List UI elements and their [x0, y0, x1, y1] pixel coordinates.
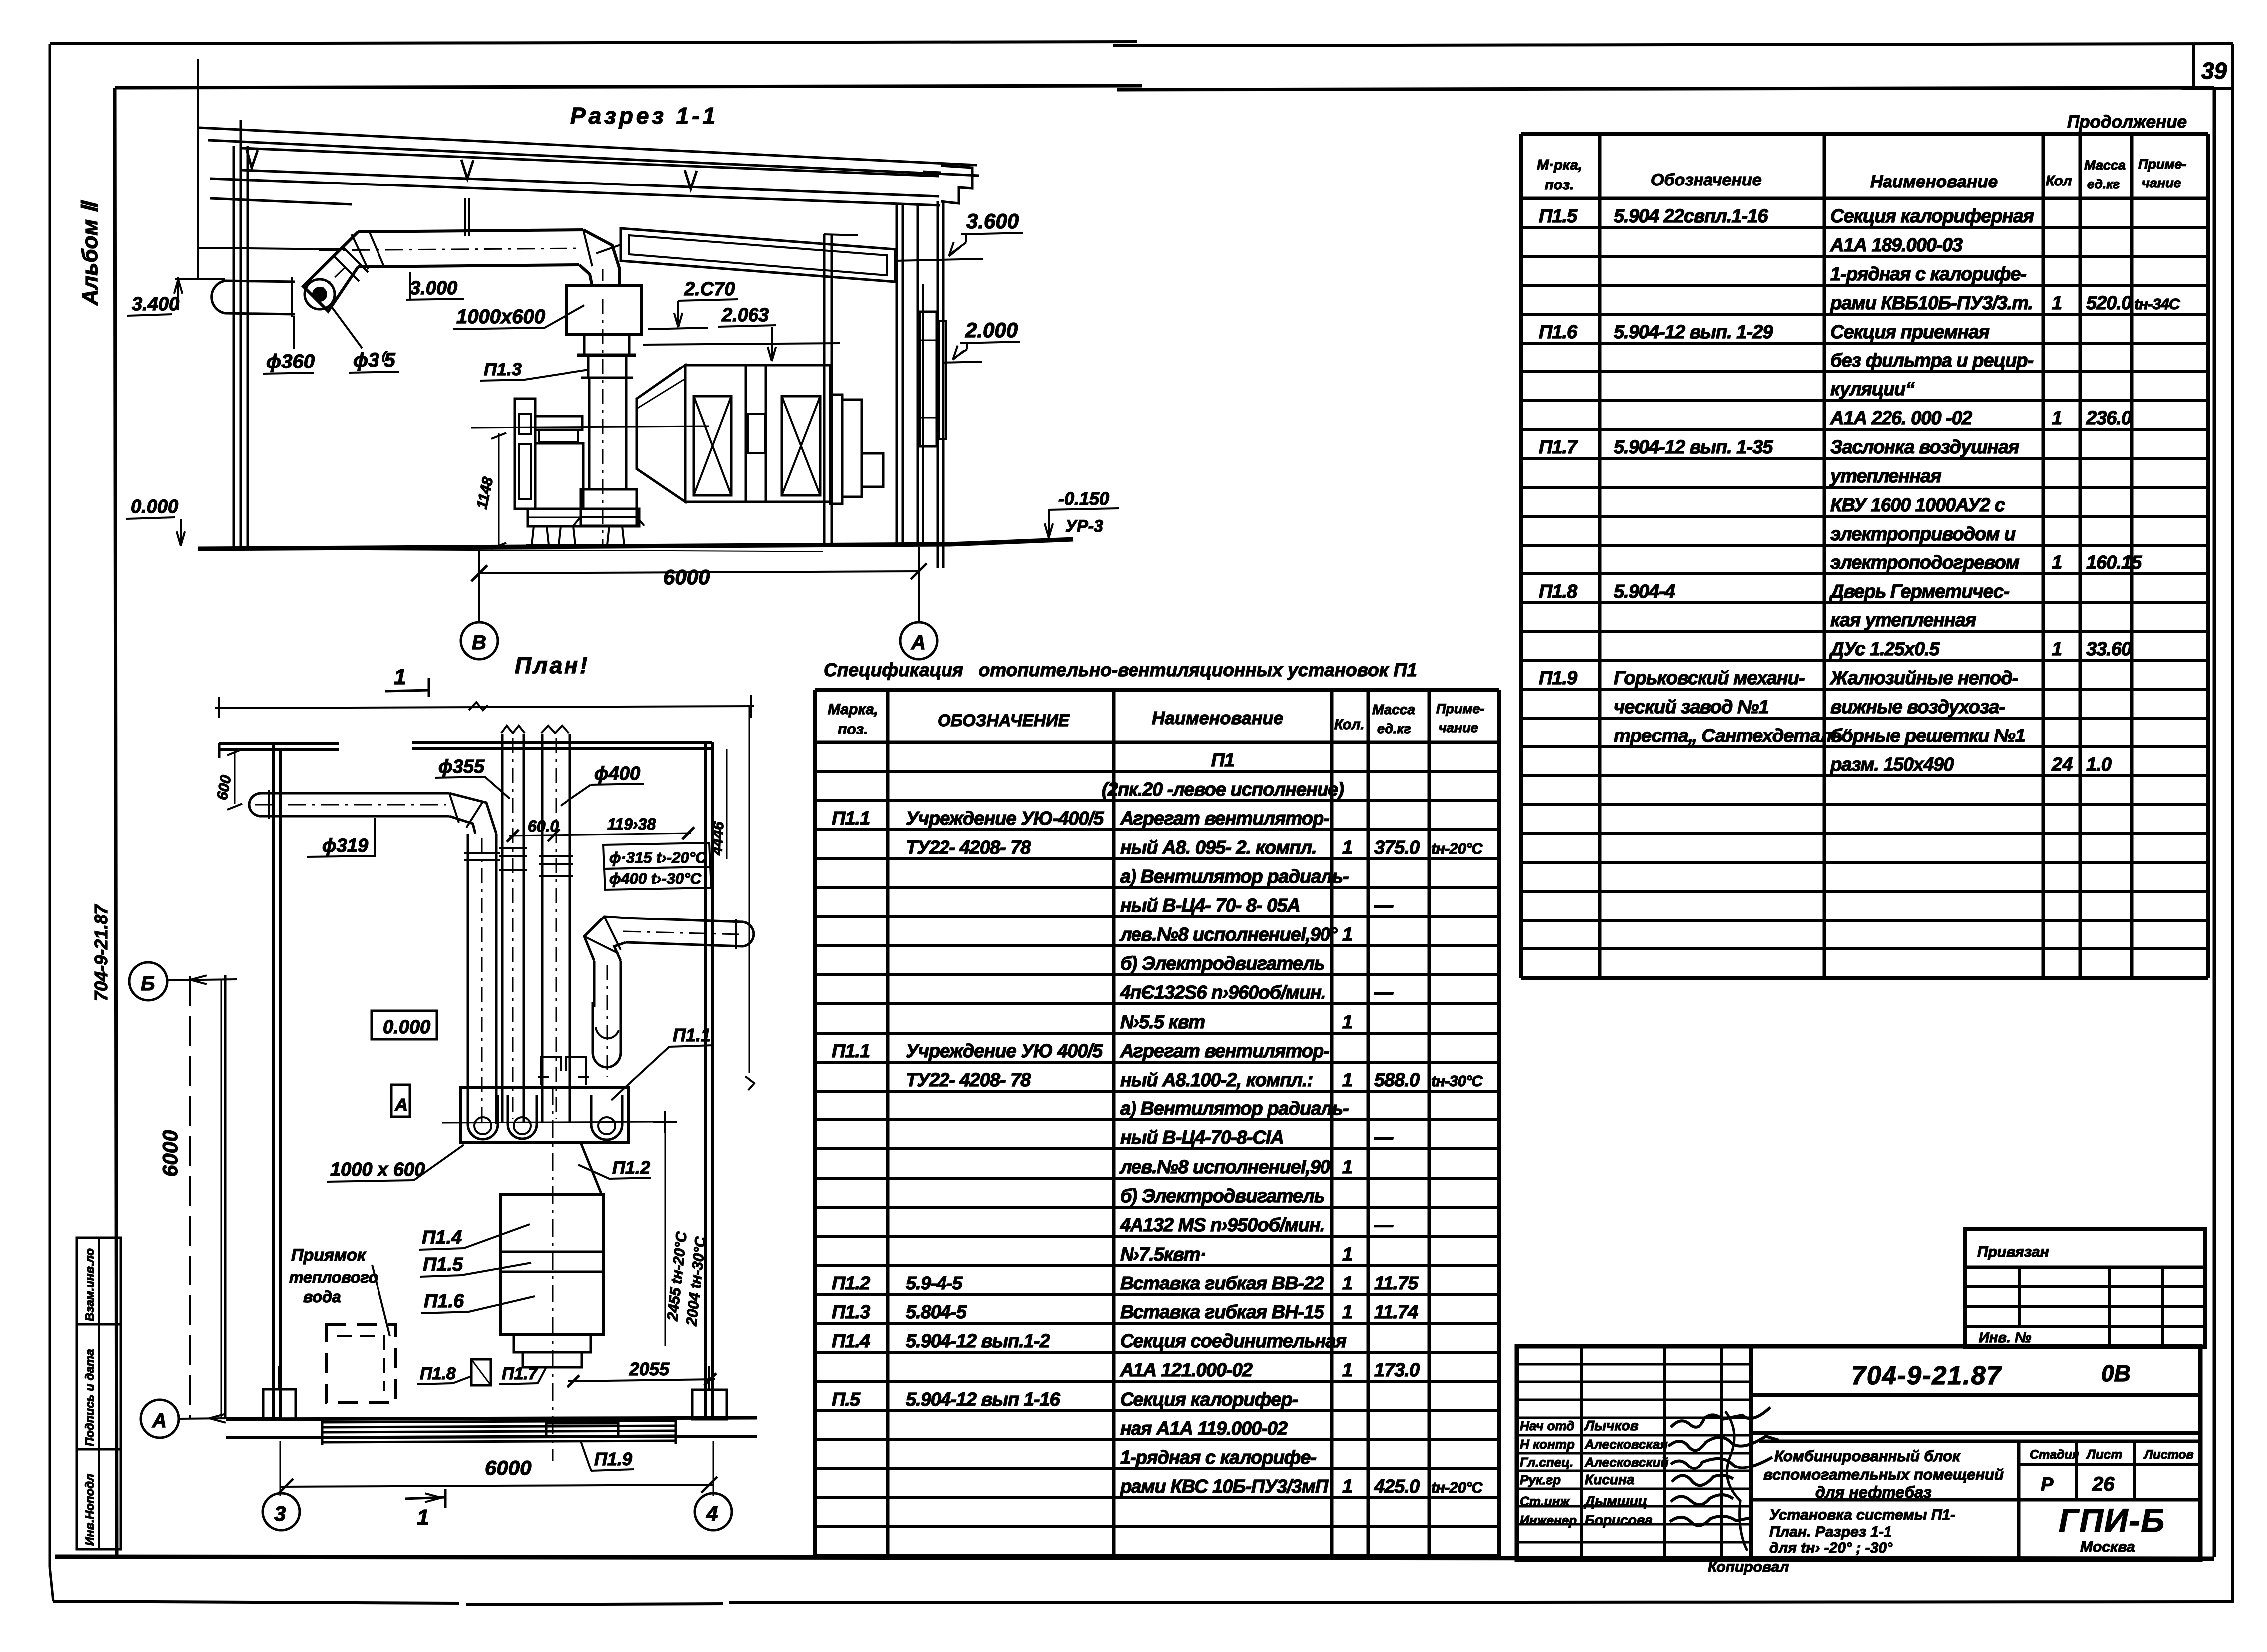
svg-text:3: 3 [274, 1502, 286, 1525]
svg-text:Рук.гр: Рук.гр [1520, 1472, 1561, 1487]
svg-text:Учреждение УЮ 400/5: Учреждение УЮ 400/5 [906, 1041, 1103, 1062]
svg-text:лев.№8 исполнениеІ,90: лев.№8 исполнениеІ,90 [1119, 1157, 1330, 1178]
title block signature text [1520, 1418, 1668, 1528]
svg-text:П1.7: П1.7 [1539, 437, 1578, 458]
labels P1.4 P1.5 P1.6 [419, 1224, 535, 1313]
svg-text:теплового: теплового [289, 1268, 378, 1286]
svg-text:0В: 0В [2101, 1360, 2131, 1386]
svg-text:ед.кг: ед.кг [2087, 177, 2120, 191]
svg-text:N›5.5 квт: N›5.5 квт [1120, 1012, 1205, 1033]
grid bubble V [461, 622, 498, 659]
heater section 2 [766, 365, 830, 502]
right interior column [824, 234, 858, 545]
plenum box 1000x600 [567, 269, 641, 335]
svg-text:П1.3: П1.3 [832, 1302, 870, 1323]
svg-text:ϕ400: ϕ400 [594, 763, 640, 784]
svg-text:6000: 6000 [485, 1456, 531, 1479]
svg-text:ный В-Ц4-70-8-СІА: ный В-Ц4-70-8-СІА [1120, 1127, 1284, 1148]
svg-text:поз.: поз. [1545, 177, 1574, 193]
svg-text:куляции“: куляции“ [1830, 379, 1915, 400]
svg-text:а) Вентилятор радиаль-: а) Вентилятор радиаль- [1120, 1099, 1349, 1119]
transition cone [637, 365, 685, 502]
svg-text:5.904-12 вып. 1-29: 5.904-12 вып. 1-29 [1614, 322, 1773, 343]
svg-text:электроприводом и: электроприводом и [1830, 524, 2016, 545]
svg-text:6000: 6000 [663, 565, 710, 589]
svg-text:Инв.Ноподл: Инв.Ноподл [83, 1474, 97, 1546]
svg-text:704-9-21.87: 704-9-21.87 [1851, 1361, 2002, 1390]
roof deck lines [199, 128, 979, 196]
svg-text:1: 1 [2052, 408, 2062, 429]
svg-text:Борисова: Борисова [1585, 1512, 1653, 1528]
grid bubble A plan [141, 1400, 279, 1438]
svg-text:1: 1 [1342, 1302, 1353, 1323]
dim 2.000 level [942, 318, 1020, 363]
level line 2.063 [643, 343, 840, 345]
svg-text:ОБОЗНАЧЕНИЕ: ОБОЗНАЧЕНИЕ [938, 711, 1070, 730]
svg-text:3.400: 3.400 [132, 294, 179, 315]
svg-text:0.000: 0.000 [131, 496, 178, 517]
svg-text:11.74: 11.74 [1374, 1302, 1418, 1323]
svg-text:П1.1: П1.1 [832, 1041, 870, 1062]
label f355 [435, 756, 510, 799]
svg-text:ГПИ-Б: ГПИ-Б [2059, 1502, 2165, 1539]
plan left dim 6000 vertical [158, 979, 221, 1419]
svg-text:2.063: 2.063 [721, 305, 769, 326]
svg-text:2.С70: 2.С70 [684, 279, 735, 300]
grid bubble 3 [263, 1493, 300, 1530]
svg-text:П1.4: П1.4 [422, 1227, 462, 1248]
svg-text:2055: 2055 [629, 1359, 670, 1379]
duct diagonal left elbow [303, 232, 368, 311]
wall louver window [920, 312, 946, 446]
label P1.7 [499, 1364, 546, 1384]
svg-text:—: — [1374, 1127, 1394, 1148]
svg-text:М·рка,: М·рка, [1537, 157, 1582, 173]
svg-text:Нач отд: Нач отд [1520, 1418, 1574, 1433]
floor line [198, 539, 1073, 551]
svg-text:39: 39 [2201, 58, 2227, 84]
svg-text:лев.№8 исполнениеІ,90°: лев.№8 исполнениеІ,90° [1119, 924, 1338, 945]
duct elbow plan [449, 793, 496, 834]
svg-text:б) Электродвигатель: б) Электродвигатель [1120, 1186, 1324, 1207]
svg-text:Разрез 1-1: Разрез 1-1 [570, 103, 718, 129]
plan top dimension line [215, 695, 754, 718]
svg-text:вижные воздухоза-: вижные воздухоза- [1830, 697, 2005, 718]
svg-text:Приме-: Приме- [2138, 157, 2186, 172]
svg-text:Взам.инв.ло: Взам.инв.ло [83, 1248, 97, 1321]
svg-text:Секция калориферная: Секция калориферная [1830, 206, 2034, 227]
svg-text:Инв. №: Инв. № [1979, 1330, 2031, 1346]
svg-text:173.0: 173.0 [1374, 1360, 1420, 1381]
svg-text:Масса: Масса [1372, 702, 1415, 717]
svg-text:П1.5: П1.5 [423, 1254, 463, 1275]
signature scribbles [1668, 1407, 1779, 1551]
plan lower outer wall [190, 975, 225, 1419]
left wall column [198, 59, 344, 547]
connector section [746, 365, 766, 502]
svg-text:1000 х 600: 1000 х 600 [330, 1159, 425, 1180]
fan unit plan outline [461, 1087, 628, 1143]
svg-text:Секция приемная: Секция приемная [1830, 322, 1989, 343]
svg-text:Продолжение: Продолжение [2067, 112, 2187, 132]
svg-text:1: 1 [417, 1505, 429, 1530]
duct round stub left [212, 277, 295, 317]
svg-text:ный А8. 095- 2. компл.: ный А8. 095- 2. компл. [1120, 837, 1317, 858]
dim 600 left [214, 749, 242, 810]
svg-text:Алесковский: Алесковский [1584, 1455, 1668, 1469]
svg-text:4446: 4446 [709, 821, 727, 856]
svg-text:1: 1 [1342, 1244, 1353, 1265]
dim -0.150 level [1045, 488, 1119, 538]
svg-text:вспомогательных помещений: вспомогательных помещений [1763, 1466, 2004, 1483]
svg-text:1.0: 1.0 [2086, 754, 2112, 775]
svg-text:1: 1 [1342, 924, 1353, 945]
label P1.2 plan [578, 1157, 651, 1179]
svg-text:П1.6: П1.6 [424, 1291, 464, 1312]
spec table grid [815, 690, 1499, 1556]
roof rib notches [247, 150, 697, 189]
svg-text:Заслонка воздушная: Заслонка воздушная [1830, 437, 2019, 458]
svg-text:-0.150: -0.150 [1058, 488, 1109, 509]
title block logo GPI-B [2059, 1502, 2165, 1555]
svg-text:П1.5: П1.5 [1539, 206, 1578, 227]
fan casing [573, 489, 644, 526]
svg-text:б) Электродвигатель: б) Электродвигатель [1120, 953, 1324, 974]
horizontal duct f319 [249, 790, 449, 819]
spec table header text [828, 701, 1484, 737]
svg-text:без фильтра и рецир-: без фильтра и рецир- [1830, 350, 2033, 371]
plan right wall [705, 742, 712, 1419]
svg-text:Кол.: Кол. [1334, 717, 1365, 733]
svg-text:2.000: 2.000 [965, 318, 1018, 342]
plan right dim extension [727, 706, 754, 1090]
vertical duct f355 [499, 726, 527, 1122]
dim 3.600 level [895, 209, 1023, 261]
svg-text:Приме-: Приме- [1436, 701, 1484, 716]
svg-text:Агрегат вентилятор-: Агрегат вентилятор- [1120, 808, 1329, 829]
svg-text:Секция калорифер-: Секция калорифер- [1120, 1389, 1298, 1410]
svg-text:4пЄ132Ѕ6 n›960об/мин.: 4пЄ132Ѕ6 n›960об/мин. [1120, 982, 1326, 1003]
exhaust duct to wall [623, 918, 754, 949]
svg-text:Инженер: Инженер [1520, 1513, 1577, 1528]
plan dim 600 and 119-38 [507, 815, 694, 842]
svg-text:УР-3: УР-3 [1065, 517, 1103, 536]
svg-text:Кол: Кол [2046, 173, 2072, 189]
svg-text:ϕ355: ϕ355 [438, 756, 485, 777]
svg-text:Алесковская: Алесковская [1584, 1437, 1668, 1452]
svg-text:Вставка гибкая ВВ-22: Вставка гибкая ВВ-22 [1120, 1273, 1324, 1294]
svg-text:ТУ22- 4208- 78: ТУ22- 4208- 78 [906, 1070, 1031, 1091]
svg-text:чание: чание [1439, 720, 1478, 735]
svg-text:Альбом Ⅱ: Альбом Ⅱ [78, 200, 102, 306]
section cut mark bottom [405, 1489, 445, 1530]
svg-text:а) Вентилятор радиаль-: а) Вентилятор радиаль- [1120, 866, 1349, 887]
svg-text:вода: вода [303, 1288, 341, 1306]
svg-text:704-9-21.87: 704-9-21.87 [91, 904, 111, 1001]
grid bubble A section [900, 622, 937, 659]
svg-text:рами КВС 10Б-ПУ3/3мП: рами КВС 10Б-ПУ3/3мП [1120, 1476, 1329, 1497]
svg-text:А: А [911, 632, 926, 654]
duct flange circle [305, 279, 335, 309]
svg-text:П.5: П.5 [832, 1389, 861, 1410]
pit label text [289, 1246, 390, 1336]
svg-text:ϕ3⁽5: ϕ3⁽5 [353, 349, 395, 371]
svg-text:Копировал: Копировал [1708, 1559, 1789, 1575]
axis box A plan [391, 1085, 410, 1117]
svg-text:1: 1 [1342, 1273, 1353, 1294]
pit dashed outline [326, 1325, 396, 1403]
svg-text:П1.6: П1.6 [1539, 322, 1578, 343]
svg-text:5.904-12 вып.1-2: 5.904-12 вып.1-2 [906, 1331, 1050, 1352]
svg-text:5.9-4-5: 5.9-4-5 [906, 1273, 963, 1294]
dim 2055 [567, 1359, 716, 1387]
duct below plenum [577, 335, 636, 355]
svg-text:425.0: 425.0 [1374, 1476, 1420, 1497]
svg-text:1: 1 [1342, 1070, 1353, 1091]
svg-text:4: 4 [706, 1502, 718, 1525]
label 2.070 [648, 279, 738, 329]
svg-text:Н контр: Н контр [1520, 1437, 1575, 1452]
svg-text:чание: чание [2142, 176, 2181, 190]
svg-text:119›38: 119›38 [607, 815, 656, 833]
svg-text:1: 1 [394, 665, 406, 689]
svg-text:4А132 МЅ n›950об/мин.: 4А132 МЅ n›950об/мин. [1120, 1215, 1325, 1236]
fan scroll 3 [591, 1095, 622, 1140]
svg-text:375.0: 375.0 [1374, 837, 1420, 858]
svg-text:В: В [472, 632, 486, 654]
svg-text:Масса: Масса [2084, 158, 2126, 173]
svg-text:Установка системы П1-: Установка системы П1- [1769, 1507, 1955, 1523]
plan left wall [273, 743, 281, 1419]
svg-text:Дымшиц: Дымшиц [1584, 1493, 1647, 1509]
svg-text:Подпись и дата: Подпись и дата [83, 1349, 97, 1446]
svg-text:Кисина: Кисина [1585, 1472, 1634, 1487]
svg-text:1: 1 [1342, 1012, 1353, 1033]
plan top wall [219, 742, 712, 758]
motor mount plan [538, 1057, 589, 1085]
svg-text:tн-30°С: tн-30°С [1431, 1072, 1483, 1090]
svg-text:1000х600: 1000х600 [456, 306, 545, 328]
margin stamp boxes [77, 1238, 121, 1549]
svg-text:ческий завод №1: ческий завод №1 [1614, 697, 1769, 718]
svg-text:разм. 150х490: разм. 150х490 [1830, 754, 1954, 775]
duct elbow to roof right [579, 230, 622, 286]
svg-text:1-рядная с калорифе-: 1-рядная с калорифе- [1830, 264, 2026, 285]
svg-text:60.0: 60.0 [528, 817, 559, 835]
grid bubble B plan [129, 962, 237, 1000]
svg-text:П1.3: П1.3 [484, 359, 522, 379]
sheet number box 39 [2174, 44, 2232, 89]
svg-text:160.15: 160.15 [2086, 552, 2142, 573]
svg-text:Гл.спец.: Гл.спец. [1520, 1455, 1573, 1469]
end plates [830, 395, 883, 504]
svg-text:для tн› -20° ; -30°: для tн› -20° ; -30° [1769, 1540, 1893, 1556]
svg-text:—: — [1374, 895, 1394, 916]
svg-text:ϕ·315 t›-20°С: ϕ·315 t›-20°С [609, 849, 707, 866]
plan bottom wall [226, 1418, 757, 1438]
svg-text:3.000: 3.000 [410, 278, 457, 299]
svg-text:ед.кг: ед.кг [1377, 721, 1411, 736]
svg-text:П1.4: П1.4 [832, 1331, 870, 1352]
fan inlet oval duct [593, 961, 621, 1077]
label f360 [263, 316, 315, 374]
svg-text:tн-20°С: tн-20°С [1431, 1479, 1483, 1496]
svg-text:План. Разрез 1-1: План. Разрез 1-1 [1769, 1524, 1892, 1540]
duct hanger [465, 198, 469, 236]
svg-text:План!: План! [515, 652, 589, 678]
svg-text:КВУ 1600 1000АУ2 с: КВУ 1600 1000АУ2 с [1830, 495, 2005, 516]
label 1000x600 [453, 305, 584, 329]
section bottom dimension 6000 [471, 547, 927, 622]
svg-text:tн-20°С: tн-20°С [1431, 840, 1483, 857]
label P1.1 [611, 1025, 713, 1100]
svg-text:520.0: 520.0 [2086, 293, 2132, 314]
svg-text:Р: Р [2041, 1474, 2054, 1495]
grid bubble 4 [695, 1493, 732, 1530]
title block stage sheet [2019, 1441, 2200, 1560]
column footing right [692, 1366, 727, 1419]
svg-text:ДУс 1.25х0.5: ДУс 1.25х0.5 [1829, 639, 1940, 660]
svg-text:1-рядная с калорифе-: 1-рядная с калорифе- [1120, 1447, 1316, 1468]
svg-text:Комбинированный блок: Комбинированный блок [1774, 1447, 1961, 1465]
dim 1148 vertical [474, 433, 506, 549]
svg-text:1: 1 [1342, 1157, 1353, 1178]
svg-text:ТУ22- 4208- 78: ТУ22- 4208- 78 [906, 837, 1031, 858]
svg-text:П1.8: П1.8 [420, 1364, 456, 1383]
svg-text:Секция соединительная: Секция соединительная [1120, 1331, 1347, 1352]
svg-text:А1А 226. 000 -02: А1А 226. 000 -02 [1830, 408, 1972, 429]
right wall [897, 201, 943, 568]
label 2.063 [718, 305, 776, 361]
svg-text:рами КВБ10Б-ПУ3/3.т.: рами КВБ10Б-ПУ3/3.т. [1830, 293, 2033, 314]
roof right parapet [923, 166, 972, 203]
svg-text:Наименование: Наименование [1870, 172, 1998, 191]
plan bottom dimension 6000 [277, 1441, 717, 1496]
svg-text:0.000: 0.000 [383, 1017, 430, 1038]
supply duct horizontal run [319, 230, 583, 269]
svg-text:П1: П1 [1211, 750, 1234, 771]
vertical duct f319 run [464, 834, 500, 1124]
svg-text:ный А8.100-2, компл.:: ный А8.100-2, компл.: [1120, 1070, 1313, 1091]
svg-text:А1А 121.000-02: А1А 121.000-02 [1120, 1360, 1253, 1381]
svg-text:Спецификация отопительно-вен: Спецификация отопительно-вентиляционных … [824, 660, 1417, 680]
svg-text:кая утепленная: кая утепленная [1830, 610, 1976, 631]
roof beam [210, 179, 940, 282]
svg-text:Ст.инж: Ст.инж [1520, 1494, 1570, 1509]
label f400 plan [561, 763, 644, 806]
section cut mark top [385, 665, 429, 697]
svg-text:ϕ319: ϕ319 [322, 835, 368, 856]
svg-text:6000: 6000 [158, 1130, 182, 1177]
svg-text:треста„ Сантехдеталь“: треста„ Сантехдеталь“ [1614, 726, 1852, 746]
svg-text:Лист: Лист [2086, 1447, 2122, 1462]
svg-text:N›7.5квт·: N›7.5квт· [1120, 1244, 1206, 1265]
rotated dims right of unit [664, 1122, 709, 1346]
svg-text:Вставка гибкая ВН-15: Вставка гибкая ВН-15 [1120, 1302, 1324, 1323]
svg-text:ϕ360: ϕ360 [266, 351, 315, 372]
svg-text:1: 1 [1342, 1476, 1353, 1497]
svg-text:tн-34С: tн-34С [2134, 295, 2180, 313]
svg-text:Москва: Москва [2080, 1539, 2135, 1555]
svg-text:Наименование: Наименование [1152, 708, 1283, 728]
svg-text:П1.9: П1.9 [594, 1449, 632, 1469]
svg-text:Учреждение УЮ-400/5: Учреждение УЮ-400/5 [906, 808, 1104, 829]
flexible insert P1.3 [581, 355, 633, 378]
column footing left [263, 1366, 296, 1419]
level box 0.000 plan [372, 1011, 437, 1039]
dim 3.400 level mark [127, 277, 225, 316]
fan scroll 1 [468, 1095, 498, 1139]
svg-text:П1.2: П1.2 [832, 1273, 870, 1294]
transition funnel plan [503, 1087, 602, 1461]
svg-text:5.804-5: 5.804-5 [906, 1302, 967, 1323]
svg-text:3.600: 3.600 [966, 209, 1019, 233]
unit sections P1.4-P1.6 plan [500, 1195, 604, 1335]
svg-text:Стадия: Стадия [2030, 1448, 2079, 1462]
label P1.9 [581, 1441, 634, 1471]
svg-text:588.0: 588.0 [1374, 1070, 1420, 1091]
svg-text:33.60: 33.60 [2086, 639, 2132, 660]
svg-text:1: 1 [2052, 639, 2062, 660]
svg-text:236.0: 236.0 [2086, 408, 2132, 429]
svg-text:1: 1 [2052, 552, 2062, 573]
svg-text:П1.1: П1.1 [832, 808, 870, 829]
svg-text:(2пк.20 -левое исполнение): (2пк.20 -левое исполнение) [1102, 779, 1344, 800]
dim 0.000 level mark [126, 496, 185, 546]
svg-text:П1.9: П1.9 [1539, 668, 1577, 689]
svg-text:А: А [394, 1095, 408, 1115]
title block document number [1751, 1360, 2200, 1433]
svg-text:11.75: 11.75 [1374, 1273, 1419, 1294]
svg-text:П1.2: П1.2 [612, 1157, 650, 1178]
fan scroll 2 [508, 1095, 537, 1139]
svg-text:24: 24 [2051, 754, 2073, 775]
svg-text:5.904-12 вып. 1-35: 5.904-12 вып. 1-35 [1614, 437, 1773, 458]
svg-text:ϕ400 t›-30°С: ϕ400 t›-30°С [609, 870, 702, 887]
svg-text:5.904 22свпл.1-16: 5.904 22свпл.1-16 [1614, 206, 1768, 227]
connector below unit plan [514, 1335, 591, 1367]
title block project name [1759, 1441, 2019, 1501]
label 3.000 [406, 272, 464, 300]
vertical duct f400 [539, 726, 573, 1122]
louver strip P1.9 [322, 1417, 676, 1445]
boxed note f400 [604, 867, 711, 890]
svg-text:Приямок: Приямок [291, 1246, 367, 1265]
continuation table grid [1521, 134, 2208, 978]
svg-text:Горьковский механи-: Горьковский механи- [1614, 668, 1805, 689]
svg-text:—: — [1374, 982, 1394, 1003]
title block drawing name [1751, 1500, 2019, 1556]
shaft axis line [471, 426, 709, 428]
exhaust elbow plan [584, 917, 626, 961]
heater section 1 [685, 365, 746, 502]
svg-text:1: 1 [1342, 837, 1353, 858]
svg-text:утепленная: утепленная [1829, 466, 1941, 487]
svg-text:П1.7: П1.7 [502, 1364, 539, 1383]
svg-text:П1.1: П1.1 [673, 1025, 711, 1045]
label P1.8 and door [417, 1359, 491, 1385]
svg-text:1: 1 [1342, 1360, 1353, 1381]
svg-text:Жалюзийные непод-: Жалюзийные непод- [1829, 668, 2018, 689]
svg-text:Марка,: Марка, [828, 701, 878, 718]
svg-text:поз.: поз. [838, 721, 868, 737]
electric motor and stand [515, 399, 583, 509]
svg-text:Привязан: Привязан [1977, 1244, 2049, 1260]
svg-text:Дверь Герметичес-: Дверь Герметичес- [1829, 581, 2009, 602]
svg-text:1: 1 [2052, 293, 2062, 314]
svg-text:П1.8: П1.8 [1539, 581, 1578, 602]
svg-text:Б: Б [141, 973, 155, 995]
